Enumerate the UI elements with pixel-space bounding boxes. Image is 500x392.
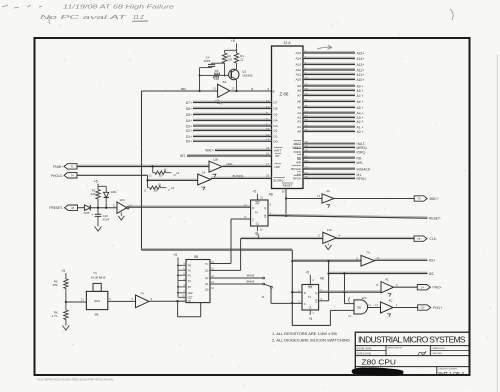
Z80 CLK pin 6 wire — [231, 87, 276, 94]
wire ΦR- into gate 8A — [142, 90, 218, 92]
svg-text:C1-: C1- — [348, 315, 352, 318]
svg-text:D7: D7 — [274, 101, 278, 105]
svg-text:+5: +5 — [231, 39, 235, 43]
wire R2 bottom to C4 — [212, 62, 225, 64]
title block row2 cells — [357, 347, 446, 356]
IC U12A Z80 CPU body — [272, 41, 304, 188]
stray pencil mark top right — [450, 9, 453, 20]
svg-text:220: 220 — [227, 58, 232, 62]
svg-text:IORQ: IORQ — [294, 150, 302, 154]
Z80 data pin D4 (pin 7) wire and net label D4+ — [186, 117, 278, 123]
svg-text:A7: A7 — [297, 94, 301, 98]
svg-text:11B: 11B — [213, 158, 218, 162]
svg-text:12 A: 12 A — [283, 41, 291, 45]
buffer U14 — [198, 170, 211, 190]
svg-text:NMI: NMI — [275, 165, 280, 169]
power +5 node (preset pull-up) — [94, 179, 106, 189]
wire PHOLD to buffer 14 — [77, 175, 198, 181]
Z80 address pin A8 (pin 38) wire and net label A8 + — [297, 87, 363, 93]
handwritten note line 1 — [2, 4, 174, 10]
Z80 address pin A4 (pin 34) wire and net label A4 + — [297, 109, 363, 115]
svg-text:100: 100 — [153, 189, 158, 193]
svg-text:D7+: D7+ — [186, 101, 192, 105]
inverter gate U8A — [213, 80, 235, 97]
resistor R6 4.7K — [52, 302, 69, 326]
svg-text:Z80 CPU: Z80 CPU — [362, 358, 397, 367]
svg-text:PHOLD-: PHOLD- — [51, 174, 63, 178]
svg-text:RFSH-: RFSH- — [357, 177, 367, 181]
svg-text:A0: A0 — [297, 130, 301, 134]
Z80 address pin A10 (pin 40) wire and net label A10+ — [295, 76, 364, 82]
svg-text:Q: Q — [264, 206, 266, 210]
svg-text:A7 +: A7 + — [357, 94, 364, 98]
svg-text:A11+: A11+ — [357, 73, 365, 77]
resistor network RN2 1K pull-up — [144, 180, 175, 192]
Z80 data pin D1 (pin 15) wire and net label D1+ — [186, 133, 278, 139]
svg-text:Ø2-: Ø2- — [429, 272, 435, 276]
svg-text:71: 71 — [71, 165, 74, 169]
svg-text:1. ALL RESISTORS ARE 1/4W ± 5%: 1. ALL RESISTORS ARE 1/4W ± 5% — [272, 331, 338, 336]
counter U9B 74161 — [182, 255, 215, 303]
resistor network RN1 1K pull-up — [149, 167, 180, 178]
svg-text:CL: CL — [256, 222, 260, 226]
wire +5 rail to Y1 — [66, 301, 87, 303]
svg-text:4MHZ: 4MHZ — [247, 274, 255, 278]
ground (R6) — [63, 326, 70, 331]
wire AND output to buffer 4C-b — [368, 307, 381, 309]
resistor R2 220 — [222, 53, 232, 63]
component label 4B (second half) — [320, 276, 325, 280]
svg-text:+5: +5 — [61, 269, 65, 273]
wire 9B Q3 output — [210, 269, 241, 271]
svg-text:A5 +: A5 + — [357, 106, 364, 110]
wire clock to buffer 7A — [292, 260, 361, 262]
svg-text:CL: CL — [309, 305, 313, 309]
svg-text:8MHZ: 8MHZ — [247, 280, 255, 284]
svg-text:14: 14 — [421, 285, 424, 289]
svg-text:CR1: CR1 — [111, 190, 117, 194]
Z80 control pin WR (pin 22) wire and net label WR- — [296, 159, 363, 165]
Z80 address pin A15 (pin 5) wire and net label A15+ — [295, 49, 364, 55]
svg-text:A15: A15 — [295, 51, 301, 55]
svg-text:D4: D4 — [274, 119, 278, 123]
svg-text:CR5: CR5 — [84, 211, 90, 215]
wire 9B CP clock input with feedback loop — [149, 300, 201, 317]
buffer U7A-a — [131, 291, 152, 307]
svg-text:D6+: D6+ — [186, 107, 192, 111]
svg-text:26: 26 — [282, 190, 285, 194]
Z80 address pin A11 (pin 1) wire and net label A11+ — [296, 71, 364, 77]
svg-text:Q: Q — [315, 291, 317, 295]
svg-text:CLK-: CLK- — [430, 237, 438, 241]
svg-text:RFSH: RFSH — [293, 176, 301, 180]
svg-text:BUSAK: BUSAK — [291, 167, 301, 171]
wire FF 4B-2 D input — [291, 291, 302, 293]
Z80 address pin A6 (pin 36) wire and net label A6 + — [297, 98, 363, 104]
wire FF 4B-2 C input — [271, 302, 302, 304]
wire PRESET node — [90, 207, 117, 209]
svg-text:15: 15 — [71, 206, 74, 210]
svg-text:NMI-: NMI- — [227, 162, 234, 166]
svg-text:15: 15 — [421, 306, 424, 310]
flip-flop U4B-1 7474 — [244, 200, 272, 226]
page right edge line — [496, 55, 498, 392]
buffer U11B — [209, 158, 222, 178]
wire vertical x344 — [343, 274, 345, 304]
wire net Φ2- to label — [329, 272, 435, 276]
svg-text:A2: A2 — [297, 120, 301, 124]
wire vertical x292 clock feed — [291, 250, 293, 325]
svg-text:+: + — [91, 213, 93, 217]
svg-text:A8: A8 — [297, 89, 301, 93]
svg-text:12K: 12K — [214, 77, 219, 81]
svg-text:D3+: D3+ — [186, 124, 192, 128]
svg-text:16.00 MHZ: 16.00 MHZ — [91, 276, 106, 280]
component label 4B — [269, 192, 274, 196]
svg-text:D1+: D1+ — [186, 135, 192, 139]
wire net CLK- with connector — [337, 236, 438, 241]
svg-text:R3: R3 — [215, 69, 219, 73]
svg-text:33UF: 33UF — [103, 217, 110, 221]
svg-text:4024: 4024 — [94, 299, 100, 303]
svg-text:1K: 1K — [163, 168, 166, 172]
svg-text:A13: A13 — [295, 63, 301, 67]
svg-text:A9 +: A9 + — [357, 84, 364, 88]
svg-text:D6: D6 — [274, 107, 278, 111]
svg-text:74: 74 — [308, 295, 312, 299]
power +5 (FF 4B-1 clear) — [256, 226, 264, 237]
Z80 WAIT pin 24 wire and net label WAIT- — [205, 146, 282, 152]
svg-text:8D: 8D — [357, 306, 361, 310]
power +5 (FF 4B-2 preset) — [305, 270, 314, 284]
crystal oscillator Y1 16.00 MHZ — [81, 271, 111, 317]
power +5 node (oscillator) — [231, 39, 237, 50]
Z80 data pin D5 (pin 9) wire and net label D5+ — [186, 111, 278, 117]
svg-text:PRESET-: PRESET- — [49, 206, 63, 210]
power +5 (FF 4B-2 clear) — [308, 310, 314, 321]
svg-text:D: D — [304, 291, 306, 295]
svg-text:2. ALL DIODES ARE SILICON SWIT: 2. ALL DIODES ARE SILICON SWITCHING — [272, 337, 350, 342]
Z80 address pin A2 (pin 32) wire and net label A2 + — [297, 118, 363, 124]
svg-text:1.7K: 1.7K — [52, 314, 58, 318]
Z80 address pin A1 (pin 31) wire and net label A1 + — [297, 123, 363, 129]
inverter U12C — [113, 198, 133, 214]
diode CR1 — [104, 186, 117, 207]
svg-text:CHECKED: CHECKED — [432, 353, 443, 355]
svg-text:INT-: INT- — [180, 154, 186, 158]
svg-text:75: 75 — [418, 197, 421, 201]
svg-text:WR: WR — [296, 160, 301, 164]
Z80 control pin IORQ (pin 20) wire and net label IORQ- — [294, 148, 366, 154]
wire TC to FF4B-1 clock — [231, 219, 251, 264]
svg-text:WR-: WR- — [357, 161, 364, 165]
ground (11C) — [325, 244, 331, 250]
svg-text:Y1: Y1 — [93, 271, 97, 275]
flip-flop U4B-2 7474 — [298, 285, 323, 311]
wire Y1 to buffer 7A-a — [108, 300, 136, 302]
svg-text:A6 +: A6 + — [357, 100, 364, 104]
pencil scribble near D7 wire — [214, 100, 223, 104]
wire ΦR- vertical drop — [141, 91, 143, 250]
resistor R1 22 — [234, 50, 244, 63]
Z80 data pin D0 (pin 14) wire and net label D0+ — [186, 138, 278, 144]
svg-text:330: 330 — [91, 192, 96, 196]
svg-text:TC: TC — [205, 263, 209, 266]
wire horizontal y250 — [142, 249, 293, 250]
power +5 pull-up on CLK line — [254, 232, 258, 239]
svg-text:F1001 REPRODUCED ON HIGH: F1001 REPRODUCED ON HIGH SPEED DIAZO PRI… — [37, 379, 114, 382]
Z80 control pin BUSAK (pin 23) wire and net label BUSACK- — [291, 165, 371, 171]
svg-text:D1: D1 — [274, 135, 278, 139]
svg-text:BUSRQ: BUSRQ — [274, 178, 285, 182]
wire C4 to feedback node — [198, 68, 211, 93]
svg-text:+5: +5 — [254, 232, 258, 236]
wire bottom loop to AND gate — [292, 310, 354, 325]
title text Z80 CPU — [362, 358, 397, 367]
svg-text:CET: CET — [188, 297, 193, 300]
wire 9B TC output — [210, 263, 231, 265]
wire net RESET- — [268, 214, 441, 220]
jumper J1 link — [261, 284, 272, 303]
Z80 address pin A9 (pin 39) wire and net label A9 + — [297, 82, 363, 88]
Z80 control pin MREQ (pin 19) wire and net label MREQ- — [292, 144, 367, 150]
svg-text:D: D — [252, 206, 254, 210]
Z80 data pin D3 (pin 8) wire and net label D3+ — [186, 122, 278, 128]
Z80 address pin A5 (pin 35) wire and net label A5 + — [297, 104, 363, 110]
wire FF 4B-2 Qbar — [319, 300, 329, 302]
pencil arrow near A15 wire — [317, 45, 332, 49]
connector J-74 PHOLD- — [51, 173, 77, 178]
svg-text:A5: A5 — [297, 106, 301, 110]
svg-text:PE: PE — [188, 265, 192, 268]
svg-text:DATE 10-9-80: DATE 10-9-80 — [357, 352, 372, 355]
svg-text:11C: 11C — [327, 228, 333, 232]
Z80 address pin A13 (pin 3) wire and net label A13+ — [295, 61, 364, 67]
ground (C13) — [95, 227, 102, 232]
capacitor C13 33UF — [91, 208, 109, 227]
svg-text:BUSACK-: BUSACK- — [357, 167, 372, 171]
wire FF 4B-2 Q to buffer 4C — [319, 291, 381, 292]
svg-text:74: 74 — [255, 210, 259, 214]
svg-text:A1 +: A1 + — [357, 125, 364, 129]
svg-text:D3: D3 — [274, 124, 278, 128]
svg-text:+5: +5 — [176, 171, 180, 175]
svg-text:A10+: A10+ — [357, 78, 365, 82]
svg-text:INT: INT — [275, 154, 280, 158]
svg-text:A14: A14 — [295, 57, 301, 61]
diode CR5 — [78, 205, 91, 215]
Z80 control pin M1 (pin 27) wire and net label M1- — [297, 171, 362, 177]
svg-text:A13+: A13+ — [357, 63, 365, 67]
wire 9B Q3 to 11C — [241, 237, 323, 270]
resistor R5 680 — [53, 279, 68, 303]
svg-text:WAIT: WAIT — [274, 149, 281, 153]
svg-text:PR: PR — [256, 201, 260, 205]
buffer U4C-d (PHI1) — [375, 298, 398, 317]
Z80 control pin RD (pin 21) wire and net label RD- — [297, 154, 363, 160]
Z80 INT pin 16 wire and net label INT- — [180, 152, 281, 159]
wire 9B Q1 net 8MHZ — [210, 280, 265, 285]
svg-text:D0: D0 — [274, 139, 278, 143]
svg-text:A12: A12 — [295, 68, 301, 72]
connector J-71 PNMI+ — [53, 164, 77, 169]
svg-text:12C: 12C — [362, 296, 367, 300]
Z80 control pin HALT (pin 18) wire and net label HALT- — [294, 140, 366, 146]
svg-text:DRAWN R.M.: DRAWN R.M. — [432, 347, 446, 350]
svg-text:J1: J1 — [261, 295, 265, 299]
svg-text:DRAWING NUMBER: DRAWING NUMBER — [438, 368, 457, 371]
svg-text:PHI1+: PHI1+ — [433, 306, 442, 310]
wire vertical x328 to 4B — [327, 261, 329, 301]
Z80 address pin A0 (pin 30) wire and net label A0 + — [297, 128, 363, 134]
wire 9B Q2 net 4MHZ — [210, 274, 265, 279]
wire PNMI to buffer 11B — [77, 165, 209, 167]
wire R2 to Q1 base node — [224, 63, 226, 76]
svg-text:D0+: D0+ — [186, 140, 192, 144]
sheet number cell — [438, 368, 464, 377]
handwritten note line 2 — [40, 15, 148, 24]
svg-text:PR: PR — [308, 286, 312, 290]
svg-text:A4: A4 — [297, 111, 301, 115]
power +5 node (oscillator rail) — [61, 269, 66, 279]
capacitor C4 25PF — [204, 56, 216, 68]
wire 4B web to AND gate top input — [345, 303, 355, 305]
Z80 RESET pin label — [282, 183, 293, 188]
title block frame — [355, 332, 469, 375]
Z80 control pin RFSH (pin 28) wire and net label RFSH- — [293, 175, 366, 181]
svg-text:RD-: RD- — [357, 156, 363, 160]
svg-text:74: 74 — [71, 174, 74, 178]
svg-text:ØBC+: ØBC+ — [430, 197, 439, 201]
svg-text:12C: 12C — [119, 198, 125, 202]
svg-text:100: 100 — [158, 174, 163, 178]
svg-text:A6: A6 — [297, 100, 301, 104]
svg-text:22: 22 — [240, 58, 244, 62]
power +5 (FF 4B-1 preset) — [253, 190, 264, 200]
svg-text:IORQ-: IORQ- — [357, 150, 367, 154]
svg-text:INDUSTRIAL MICRO SYSTEMS: INDUSTRIAL MICRO SYSTEMS — [358, 335, 466, 345]
Z80 data pin D6 (pin 10) wire and net label D6+ — [186, 105, 278, 111]
svg-text:C: C — [304, 302, 306, 306]
svg-text:76: 76 — [417, 237, 420, 241]
svg-text:25PF: 25PF — [204, 59, 211, 63]
Z80 address pin A3 (pin 33) wire and net label A3 + — [297, 114, 363, 120]
svg-text:SHT 1 OF 4: SHT 1 OF 4 — [438, 371, 464, 377]
bottom caption microprint — [37, 379, 114, 382]
buffer U11C — [318, 228, 340, 244]
svg-text:2N5306: 2N5306 — [242, 74, 253, 78]
wire net ΦBC+ with connector — [334, 196, 439, 201]
svg-text:A14+: A14+ — [357, 57, 365, 61]
Z80 address pin A12 (pin 2) wire and net label A12+ — [295, 66, 364, 72]
wire Z80 RESET pin 26 — [282, 189, 287, 218]
svg-text:5B: 5B — [95, 313, 99, 317]
svg-text:PNMI+: PNMI+ — [53, 165, 63, 169]
svg-text:A2 +: A2 + — [357, 120, 364, 124]
connector J-15 PRESET- — [49, 205, 77, 210]
svg-text:Ø2+: Ø2+ — [429, 259, 435, 263]
svg-text:D2: D2 — [274, 129, 278, 133]
svg-text:+5: +5 — [305, 270, 309, 274]
resistor R7 330 — [91, 189, 101, 208]
svg-text:A0 +: A0 + — [357, 130, 364, 134]
svg-text:D2+: D2+ — [186, 129, 192, 133]
svg-text:+5: +5 — [94, 179, 98, 183]
svg-text:MODEL NO48: MODEL NO48 — [357, 348, 372, 350]
svg-text:680: 680 — [53, 283, 58, 287]
transistor Q1 2N5306 — [229, 63, 253, 92]
svg-text:PHI2+: PHI2+ — [433, 286, 442, 290]
ground (12C) — [118, 212, 124, 220]
Z80 data pin D7 (pin 13) wire and net label D7+ — [186, 99, 278, 105]
svg-text:No PC aval AT: No PC aval AT — [40, 15, 128, 21]
svg-text:APPROVED BY: APPROVED BY — [388, 347, 404, 350]
svg-text:A11: A11 — [296, 73, 302, 77]
schematic border frame — [35, 38, 470, 375]
AND gate U12C-2 — [348, 296, 371, 318]
wire net Φ2+ — [375, 259, 436, 263]
svg-text:A8 +: A8 + — [357, 89, 364, 93]
svg-text:D5: D5 — [274, 113, 278, 117]
svg-text:A9: A9 — [297, 84, 301, 88]
svg-text:1K: 1K — [158, 183, 161, 187]
svg-text:A12+: A12+ — [357, 68, 365, 72]
net label ΦR- — [181, 87, 187, 91]
svg-text:11 Z: 11 Z — [133, 15, 144, 21]
svg-text:C: C — [252, 218, 254, 222]
svg-text:+5: +5 — [308, 317, 312, 321]
wire +5 to R2 — [225, 50, 237, 53]
svg-text:RESET-: RESET- — [429, 217, 441, 221]
redaction marker blob — [352, 368, 404, 376]
svg-text:A15+: A15+ — [357, 51, 365, 55]
svg-text:MREQ-: MREQ- — [357, 146, 368, 150]
wire net PHI2+ with connector — [394, 285, 442, 290]
title text INDUSTRIAL MICRO SYSTEMS — [358, 335, 466, 345]
Z80 address pin A7 (pin 37) wire and net label A7 + — [297, 92, 363, 98]
svg-text:CEP: CEP — [188, 292, 193, 295]
resistor R3 12K — [199, 69, 229, 81]
svg-text:A1: A1 — [297, 125, 301, 129]
svg-text:Z 80: Z 80 — [280, 92, 289, 97]
svg-text:RESET: RESET — [283, 184, 293, 188]
svg-text:+5: +5 — [173, 253, 177, 257]
Z80 data pin D2 (pin 12) wire and net label D2+ — [186, 127, 278, 133]
wire PRESET line to FF 4B D input — [128, 206, 250, 207]
Z80 address pin A14 (pin 4) wire and net label A14+ — [295, 55, 364, 61]
Z80 BUSRQ pin 25 wire and net label BUSRQ- — [211, 173, 285, 182]
buffer U4C-c (PHI2) — [376, 277, 399, 296]
Z80 NMI pin 17 wire and net label NMI- — [223, 162, 282, 169]
svg-text:14: 14 — [202, 170, 206, 174]
notes text — [272, 331, 350, 342]
svg-text:CP: CP — [188, 300, 192, 303]
svg-text:D5+: D5+ — [186, 113, 192, 117]
svg-text:+5: +5 — [171, 186, 175, 190]
svg-text:+5: +5 — [253, 190, 257, 194]
power +5 rail (9B) — [173, 253, 186, 297]
buffer U7A-b — [356, 251, 380, 266]
wire net PHI1+ with connector — [393, 305, 442, 310]
svg-text:11/19/08 AT 68 High Failur: 11/19/08 AT 68 High Failure — [63, 4, 174, 10]
svg-text:A10: A10 — [295, 78, 301, 82]
svg-text:WAIT-: WAIT- — [205, 149, 214, 153]
svg-text:ØR-: ØR- — [181, 87, 187, 91]
buffer U4C-a (ΦBC) — [286, 189, 334, 207]
svg-text:BUSRQ-: BUSRQ- — [233, 174, 245, 178]
svg-text:D4+: D4+ — [186, 119, 192, 123]
svg-text:A4 +: A4 + — [357, 111, 364, 115]
